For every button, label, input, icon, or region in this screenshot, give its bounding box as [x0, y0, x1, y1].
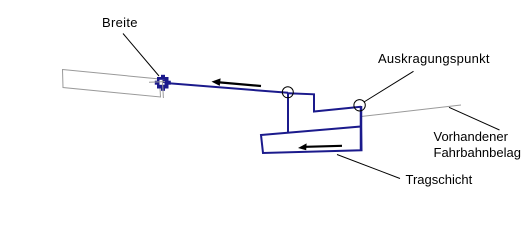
existing pavement right (gray line): [361, 105, 461, 117]
wire: top deck line from point to circle 1: [163, 83, 289, 93]
arrow (bottom, pointing left): [298, 143, 342, 150]
label Vorhandener Fahrbahnbelag: [434, 129, 521, 161]
leader: Tragschicht: [337, 155, 400, 179]
leader: Vorhandener Fahrbahnbelag: [449, 107, 500, 130]
point marker (Breite point): [149, 75, 171, 98]
node circle 1: [282, 87, 293, 98]
Tragschicht layer outline: [261, 127, 362, 154]
wire: step line circle1 to circle2: [288, 93, 361, 111]
existing pavement left (gray outline): [63, 70, 161, 98]
label Tragschicht: [406, 172, 473, 188]
wire: vertical below circle 2: [360, 106, 363, 151]
node circle 2 (Auskragungspunkt): [354, 100, 365, 111]
leader: Breite: [123, 34, 159, 77]
arrow (top, pointing left): [212, 78, 262, 86]
wire: vertical below circle 1: [287, 93, 289, 134]
leader: Auskragungspunkt: [364, 71, 414, 102]
label Auskragungspunkt: [378, 51, 490, 67]
label Breite: [102, 15, 138, 31]
